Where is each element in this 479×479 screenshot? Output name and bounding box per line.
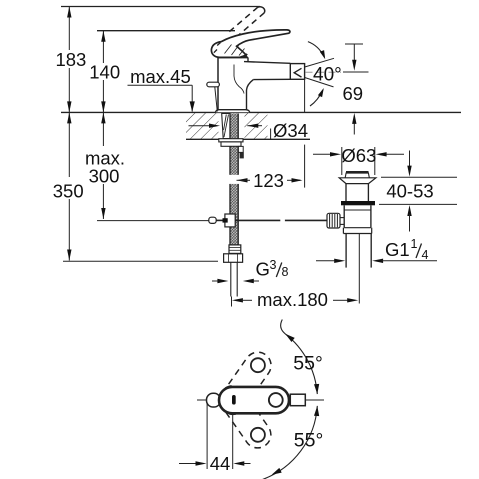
extension line at spout mouth level <box>343 71 369 73</box>
svg-text:350: 350 <box>53 180 84 201</box>
label max.45 with leader to deck top <box>126 66 195 84</box>
flexible connection hose through deck (braided) <box>230 114 238 177</box>
label 350 <box>52 177 85 199</box>
lever end circle <box>269 393 283 407</box>
handle rest height reference line (140) <box>97 30 235 32</box>
hose lower section <box>230 184 238 245</box>
extension line at hose ends (350 bottom) <box>63 260 218 262</box>
svg-text:55°: 55° <box>294 429 324 451</box>
svg-text:max.180: max.180 <box>257 289 328 310</box>
label 140 <box>88 63 121 80</box>
upper swung handle end circle <box>251 358 265 372</box>
handle swing envelope lower (dashed, -55deg) <box>214 381 276 453</box>
G3/8 hose nut <box>224 254 243 262</box>
svg-text:183: 183 <box>55 49 86 70</box>
dimension max.180 faucet axis to drain axis <box>231 297 233 307</box>
drain flange (chamfered) <box>339 178 376 184</box>
dimension max.300 vertical line <box>102 112 104 219</box>
handle tip stub in plan view <box>290 394 305 406</box>
svg-text:55°: 55° <box>293 352 323 374</box>
hose crimp fitting <box>229 245 241 254</box>
spout nose in plan view <box>207 393 221 407</box>
deck / countertop cross-section (hatched) <box>186 113 219 139</box>
dimension 44 plan view <box>206 404 208 469</box>
svg-text:G: G <box>256 259 270 280</box>
svg-text:300: 300 <box>89 166 120 187</box>
label max. 300 <box>82 146 128 184</box>
mounting wedge in hole <box>222 114 230 139</box>
dimension 140 vertical line <box>102 31 104 113</box>
lever handle (solid, rest position) <box>211 30 290 57</box>
G3/8 dimension arrows <box>212 280 220 282</box>
dimension 183 vertical line <box>68 7 70 113</box>
G3/8 tube end <box>230 262 232 296</box>
svg-text:max.45: max.45 <box>130 66 191 87</box>
svg-text:140: 140 <box>89 61 120 82</box>
body top line under handle <box>218 56 248 58</box>
lever slot mark <box>232 395 236 405</box>
knurled side knob <box>327 213 340 228</box>
dimension 40-53 drain deck thickness <box>409 151 411 168</box>
pop-up rod linkage on hose <box>225 214 235 227</box>
raised handle position (dashed) <box>226 7 258 34</box>
svg-text:3: 3 <box>270 258 277 272</box>
40-degree lower arc with arrow <box>310 90 323 106</box>
G1-1/4 dimension arrows <box>316 260 336 262</box>
rubber seal (black) <box>341 201 375 205</box>
svg-text:8: 8 <box>282 265 289 279</box>
extension line at pop-up rod level (max.300 bottom) <box>97 220 209 222</box>
rod end cap <box>209 217 216 223</box>
svg-text:Ø63: Ø63 <box>341 145 376 166</box>
handle swing envelope upper (dashed, +55deg) <box>214 347 276 419</box>
retaining clip under nut <box>238 146 243 152</box>
drain centerline down to max.180 <box>358 234 360 304</box>
spout mouth box with aerator <box>290 64 304 80</box>
mounting washer and nut under deck <box>219 139 243 142</box>
55deg upper arc with arrows <box>281 320 286 334</box>
label 183 <box>54 50 88 68</box>
pop-up pull knob on body <box>207 82 220 87</box>
drain neck <box>345 184 347 201</box>
dia 63 extension lines <box>341 147 343 175</box>
dimension 123 spout reach <box>229 175 242 184</box>
raised handle rear edge dashes over boss <box>215 43 221 48</box>
drain body <box>343 205 345 227</box>
pop-up waste plug cap <box>346 171 369 174</box>
svg-text:44: 44 <box>210 453 231 474</box>
svg-text:1: 1 <box>411 237 418 251</box>
spout axis centerline (dashed gray) <box>306 71 342 73</box>
spout underside <box>253 78 290 80</box>
svg-text:40-53: 40-53 <box>386 180 433 201</box>
dimension 69: spout height above deck <box>345 43 363 45</box>
extension line from spout tip down (spout reach 123) <box>304 80 306 113</box>
dimension 350 vertical line <box>68 112 70 260</box>
spout top <box>244 62 290 64</box>
G1-1/4 tailpipe <box>345 234 347 268</box>
lower swung handle end circle <box>251 428 265 442</box>
top line: max handle height reference (183) <box>61 6 260 8</box>
40-degree spray angle rays from spout mouth <box>305 58 334 67</box>
svg-text:G1: G1 <box>385 239 410 260</box>
svg-text:Ø34: Ø34 <box>273 120 308 141</box>
faucet body with spout <box>216 58 290 113</box>
svg-text:4: 4 <box>422 248 429 262</box>
handle lever in plan view <box>219 387 289 413</box>
55deg lower arc with arrows <box>263 406 318 479</box>
dia 34 hole dimension arrows <box>189 125 212 127</box>
inner body contour <box>234 65 244 94</box>
handle shading strokes <box>225 45 232 54</box>
horizontal pop-up rod to drain <box>216 219 225 221</box>
label 44 <box>210 455 232 471</box>
svg-text:69: 69 <box>343 83 364 104</box>
plan view centerline left <box>197 399 206 401</box>
svg-text:123: 123 <box>253 170 284 191</box>
40-degree upper arc with arrow <box>308 42 324 57</box>
dia 63 dimension arrows <box>313 153 332 155</box>
svg-text:40°: 40° <box>313 64 342 85</box>
plan view centerline right <box>305 399 324 401</box>
side knob neck <box>340 217 344 219</box>
deck top reference line <box>61 111 461 113</box>
drain locknut <box>342 228 344 234</box>
